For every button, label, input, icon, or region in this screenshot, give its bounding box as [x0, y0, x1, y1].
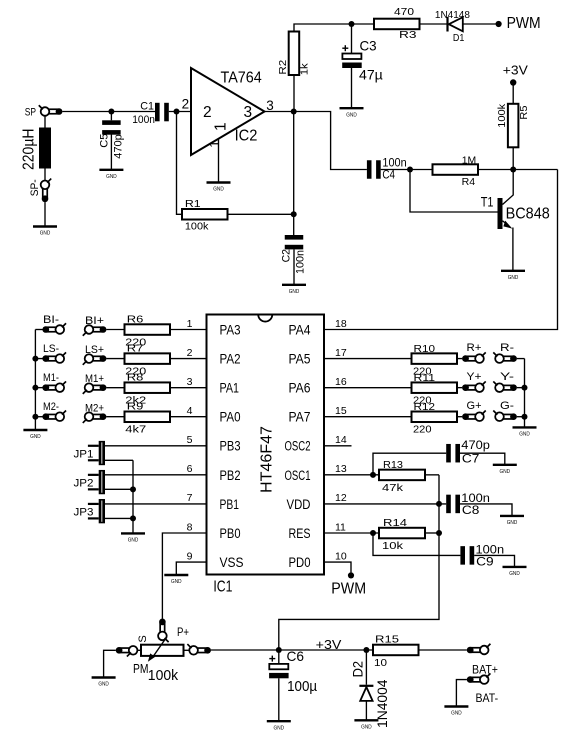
svg-text:470: 470: [394, 6, 414, 18]
junction: [32, 385, 38, 391]
wire: [456, 680, 467, 707]
wire (pin 5): [105, 445, 207, 447]
svg-text:R11: R11: [414, 372, 436, 384]
diode D2: [359, 650, 373, 720]
svg-text:PA1: PA1: [220, 381, 240, 396]
junction: [32, 414, 38, 420]
capacitor C1: [155, 103, 169, 122]
wire (RES to C9): [373, 533, 460, 555]
svg-text:100n: 100n: [294, 250, 306, 274]
ground: [354, 720, 378, 730]
wire (pin 13 OSC1): [324, 474, 379, 476]
svg-text:1: 1: [187, 318, 193, 330]
wire: [460, 453, 505, 464]
svg-text:R1: R1: [185, 198, 201, 210]
svg-text:PA6: PA6: [289, 381, 311, 396]
junction: [522, 385, 528, 391]
connector P+: [158, 619, 169, 643]
junction: [522, 414, 528, 420]
capacitor C2: [285, 235, 304, 285]
junction: [130, 486, 136, 492]
svg-text:1M: 1M: [462, 155, 477, 167]
C3 polarity +: [342, 47, 348, 49]
wire: [474, 555, 514, 566]
wire: [169, 111, 191, 113]
connector M1+: [83, 383, 125, 394]
wire (pin 17): [324, 358, 412, 360]
junction: [407, 167, 413, 173]
jumper JP1: [88, 441, 105, 465]
svg-text:6: 6: [187, 463, 193, 475]
junction: [291, 109, 297, 115]
svg-text:R12: R12: [414, 401, 436, 413]
junction: [370, 530, 376, 536]
svg-text:PB3: PB3: [220, 439, 241, 454]
svg-text:R8: R8: [127, 372, 144, 384]
capacitor C6: [269, 650, 289, 721]
svg-text:G-: G-: [500, 400, 514, 412]
resistor R10: [412, 353, 463, 364]
ground: [503, 567, 527, 577]
wire: [381, 169, 433, 171]
svg-text:C6: C6: [287, 648, 305, 664]
wire (pin 11 RES): [324, 532, 379, 534]
svg-text:R13: R13: [383, 459, 403, 471]
svg-text:PB0: PB0: [220, 526, 241, 541]
svg-text:47k: 47k: [382, 482, 404, 494]
junction: [370, 472, 376, 478]
wire (pin 16): [324, 387, 412, 389]
ground: [92, 678, 116, 688]
svg-text:R7: R7: [127, 343, 144, 355]
svg-text:GND: GND: [274, 725, 285, 731]
svg-text:C1: C1: [140, 100, 154, 112]
svg-text:PA3: PA3: [220, 322, 241, 337]
resistor R8: [125, 382, 171, 393]
svg-text:OSC2: OSC2: [285, 439, 311, 454]
svg-text:R-: R-: [500, 342, 514, 354]
svg-text:JP2: JP2: [74, 477, 94, 489]
svg-text:9: 9: [187, 550, 193, 562]
svg-text:+3V: +3V: [503, 64, 529, 78]
svg-text:10: 10: [374, 657, 387, 669]
svg-text:G+: G+: [467, 400, 482, 412]
ground: [207, 183, 231, 193]
svg-text:100k: 100k: [148, 667, 179, 684]
svg-text:PA0: PA0: [220, 410, 241, 425]
svg-text:PB2: PB2: [220, 468, 241, 483]
svg-text:PWM: PWM: [507, 15, 541, 32]
junction: [510, 167, 516, 173]
svg-text:5: 5: [187, 434, 193, 446]
ground: [513, 427, 537, 437]
svg-text:GND: GND: [98, 682, 109, 688]
svg-text:1: 1: [207, 140, 222, 148]
svg-text:BI-: BI-: [43, 314, 59, 326]
svg-text:PWM: PWM: [331, 580, 366, 597]
svg-text:GND: GND: [128, 538, 139, 544]
wire (pin 12 VDD): [324, 503, 446, 505]
C6 polarity +: [269, 658, 275, 660]
svg-text:LS-: LS-: [43, 343, 59, 355]
svg-text:GND: GND: [289, 289, 300, 295]
svg-text:R14: R14: [383, 517, 407, 529]
wire (pin 8 PB0 to P+): [162, 533, 206, 619]
ground: [500, 516, 524, 526]
diode D1: [448, 17, 496, 32]
svg-text:14: 14: [335, 434, 347, 446]
svg-text:2: 2: [203, 104, 212, 121]
connector G-: [493, 410, 524, 421]
svg-text:R+: R+: [467, 342, 482, 354]
svg-text:3: 3: [266, 98, 274, 113]
svg-text:GND: GND: [500, 469, 511, 475]
wire (pin 1): [170, 329, 207, 331]
connector Y-: [493, 381, 524, 392]
net PWM terminal: [496, 21, 502, 27]
resistor R5: [508, 104, 519, 148]
svg-text:PA5: PA5: [289, 351, 311, 366]
wire (pin 9 VSS to ground): [176, 562, 206, 575]
connector BI-: [35, 323, 66, 334]
op-amp IC2 TA764: [191, 68, 265, 155]
connector LS-: [35, 352, 66, 363]
svg-text:10k: 10k: [382, 540, 404, 552]
svg-text:R9: R9: [127, 401, 144, 413]
wire (ground bus): [34, 330, 36, 430]
svg-text:OSC1: OSC1: [285, 468, 311, 483]
svg-text:D2: D2: [351, 661, 366, 678]
wire: [105, 517, 133, 519]
resistor R3: [374, 19, 420, 30]
capacitor C7: [446, 444, 460, 463]
wire (pin 6): [105, 474, 207, 476]
connector SP: [39, 105, 63, 116]
svg-text:8: 8: [187, 521, 193, 533]
junction: [349, 21, 355, 27]
svg-text:+3V: +3V: [316, 638, 342, 652]
resistor R7: [125, 353, 171, 364]
ground: [121, 533, 145, 543]
junction: [174, 109, 180, 115]
svg-text:VDD: VDD: [287, 497, 311, 512]
connector Y+: [462, 381, 486, 392]
connector (pot right): [184, 644, 212, 655]
wire: [460, 504, 512, 516]
svg-text:C3: C3: [360, 38, 377, 54]
svg-text:15: 15: [335, 405, 347, 417]
connector BAT+: [467, 644, 491, 655]
svg-text:2: 2: [182, 97, 190, 112]
svg-text:M2+: M2+: [85, 402, 104, 414]
svg-text:PA7: PA7: [289, 410, 311, 425]
connector M2+: [83, 412, 125, 423]
ground: [444, 707, 468, 717]
svg-text:13: 13: [335, 463, 347, 475]
svg-text:4: 4: [187, 405, 193, 417]
jumper JP2: [88, 470, 105, 494]
resistor R14: [379, 528, 439, 539]
wire: [294, 24, 374, 32]
svg-text:1: 1: [213, 122, 230, 131]
wire (pin 2): [170, 358, 207, 360]
connector BI+: [83, 325, 125, 336]
svg-text:Y+: Y+: [467, 371, 482, 383]
junction: [130, 515, 136, 521]
wire (OSC1 to C7): [373, 453, 446, 475]
svg-text:IC1: IC1: [213, 579, 232, 596]
svg-text:S: S: [137, 635, 149, 642]
capacitor C5: [102, 112, 121, 170]
svg-text:PM: PM: [133, 661, 149, 676]
junction: [32, 356, 38, 362]
svg-text:100k: 100k: [185, 220, 209, 232]
capacitor C8: [446, 495, 460, 514]
svg-text:GND: GND: [346, 112, 357, 118]
ground: [282, 285, 306, 295]
junction: [276, 647, 282, 653]
svg-text:GND: GND: [106, 174, 117, 180]
wire (main bottom rail): [211, 649, 373, 651]
svg-text:7: 7: [187, 492, 193, 504]
ground: [33, 227, 57, 237]
svg-text:VSS: VSS: [220, 555, 244, 570]
svg-text:BC848: BC848: [506, 205, 550, 222]
svg-text:1k: 1k: [298, 62, 310, 75]
capacitor C9: [460, 546, 474, 565]
connector LS+: [83, 354, 125, 365]
resistor R11: [412, 382, 463, 393]
svg-text:100n: 100n: [132, 114, 155, 126]
ground: [164, 575, 188, 585]
svg-text:GND: GND: [509, 571, 520, 577]
potentiometer PM 100k: [141, 639, 184, 662]
wire: [478, 169, 558, 171]
wire: [104, 650, 116, 677]
resistor R6: [125, 324, 171, 335]
svg-text:100n: 100n: [461, 493, 490, 505]
svg-text:GND: GND: [171, 579, 182, 585]
svg-text:16: 16: [335, 376, 347, 388]
svg-text:R6: R6: [127, 314, 144, 326]
svg-text:BI+: BI+: [85, 315, 104, 327]
svg-text:JP1: JP1: [74, 448, 94, 460]
wire (op-amp pin 1 to ground): [218, 139, 220, 182]
svg-text:4k7: 4k7: [125, 424, 146, 436]
inductor 220uH: [39, 116, 51, 181]
wire (pin 14 OSC2 stub): [324, 445, 352, 447]
junction: [436, 530, 442, 536]
wire: [293, 75, 295, 112]
capacitor C4: [367, 160, 381, 179]
ground: [23, 430, 47, 440]
connector BAT-: [467, 673, 491, 684]
wire: [105, 488, 133, 490]
ground: [340, 108, 364, 118]
svg-text:C2: C2: [281, 249, 293, 262]
svg-text:PB1: PB1: [220, 497, 240, 512]
svg-text:100µ: 100µ: [287, 678, 317, 695]
wire (op-amp output): [265, 112, 367, 170]
svg-text:T1: T1: [481, 195, 494, 210]
connector (pot left): [116, 646, 141, 657]
wire: [105, 459, 133, 461]
svg-text:M1+: M1+: [85, 373, 104, 385]
wire: [228, 213, 294, 215]
connector M1-: [35, 381, 66, 392]
wire: [512, 147, 514, 169]
wire: [62, 111, 155, 113]
svg-text:GND: GND: [213, 187, 224, 193]
svg-text:GND: GND: [361, 725, 372, 731]
jumper JP3: [88, 499, 105, 523]
resistor R4: [433, 164, 479, 175]
svg-text:R3: R3: [399, 29, 417, 41]
ground: [267, 721, 291, 731]
svg-text:M2-: M2-: [43, 401, 59, 413]
junction: [108, 109, 114, 115]
svg-text:470p: 470p: [112, 134, 124, 159]
svg-text:3: 3: [187, 376, 193, 388]
resistor R12: [412, 412, 463, 423]
svg-text:C5: C5: [99, 134, 111, 148]
svg-text:R5: R5: [518, 105, 530, 119]
resistor R15: [373, 645, 467, 656]
junction: [436, 501, 442, 507]
svg-text:C4: C4: [382, 169, 395, 181]
svg-text:SP-: SP-: [29, 179, 41, 196]
svg-text:1N4148: 1N4148: [435, 9, 470, 21]
connector R+: [462, 352, 486, 363]
svg-text:LS+: LS+: [85, 344, 104, 356]
svg-text:3: 3: [244, 104, 253, 121]
net PWM terminal: [348, 572, 354, 578]
svg-text:Y-: Y-: [500, 371, 514, 383]
connector M2-: [35, 410, 66, 421]
svg-text:GND: GND: [519, 432, 530, 438]
svg-text:C7: C7: [462, 453, 480, 465]
svg-text:PA2: PA2: [220, 351, 241, 366]
svg-text:R15: R15: [375, 633, 399, 645]
svg-text:10: 10: [335, 550, 347, 562]
junction: [291, 211, 297, 217]
svg-text:JP3: JP3: [74, 506, 94, 518]
wire (pin 10 PD0 to PWM): [324, 562, 351, 572]
ground: [493, 465, 517, 475]
wire (collector net to IC1 pin 18): [324, 170, 558, 330]
wire (pin 7): [105, 503, 207, 505]
ground: [99, 170, 123, 180]
wire (pin 15): [324, 416, 412, 418]
svg-text:PA4: PA4: [289, 322, 311, 337]
ground: [501, 271, 525, 281]
wire: [420, 23, 447, 25]
wire: [44, 202, 46, 226]
svg-text:BAT-: BAT-: [476, 693, 499, 705]
svg-text:SP: SP: [25, 106, 36, 118]
connector R-: [493, 352, 524, 363]
wire: [293, 112, 295, 236]
junction: [363, 647, 369, 653]
wire (base): [410, 170, 498, 213]
svg-text:17: 17: [335, 347, 347, 359]
svg-text:C8: C8: [462, 505, 480, 517]
svg-text:220µH: 220µH: [21, 129, 38, 171]
svg-text:47µ: 47µ: [359, 66, 383, 82]
resistor R1: [182, 209, 228, 220]
svg-text:100k: 100k: [496, 103, 508, 128]
resistor R9: [125, 412, 171, 423]
svg-text:2: 2: [187, 347, 193, 359]
svg-text:220: 220: [413, 424, 432, 436]
svg-text:HT46F47: HT46F47: [258, 426, 275, 493]
transistor T1 BC848: [498, 170, 514, 271]
svg-text:11: 11: [335, 521, 346, 533]
svg-text:R4: R4: [462, 176, 476, 188]
svg-text:18: 18: [335, 318, 347, 330]
svg-text:C9: C9: [476, 556, 494, 568]
supply +3V: [503, 64, 529, 104]
svg-text:P+: P+: [177, 627, 189, 639]
svg-text:D1: D1: [453, 32, 465, 44]
connector SP-: [41, 179, 52, 203]
wire (feedback): [177, 112, 183, 215]
svg-text:RES: RES: [289, 526, 311, 541]
svg-text:GND: GND: [40, 231, 51, 237]
svg-text:M1-: M1-: [43, 372, 59, 384]
wire (pin 4): [170, 416, 207, 418]
connector G+: [462, 410, 486, 421]
wire (VDD bus): [279, 475, 439, 650]
svg-text:GND: GND: [508, 275, 519, 281]
svg-text:GND: GND: [507, 520, 518, 526]
svg-text:R10: R10: [414, 343, 436, 355]
svg-text:12: 12: [335, 492, 347, 504]
wire (led ground bus): [524, 359, 526, 427]
IC IC1 HT46F47: [207, 315, 325, 575]
svg-text:GND: GND: [30, 434, 41, 440]
svg-text:R2: R2: [277, 60, 289, 75]
svg-text:PD0: PD0: [289, 555, 311, 570]
svg-text:GND: GND: [451, 711, 462, 717]
capacitor C3: [342, 24, 362, 108]
svg-text:IC2: IC2: [235, 128, 258, 145]
svg-text:TA764: TA764: [221, 70, 263, 87]
svg-text:100n: 100n: [382, 158, 406, 170]
svg-text:470p: 470p: [461, 440, 490, 452]
resistor R2: [289, 32, 300, 76]
svg-text:100n: 100n: [476, 544, 505, 556]
wire (pin 3): [170, 387, 207, 389]
resistor R13: [379, 470, 439, 481]
wire (jumper ground bus): [132, 460, 134, 533]
